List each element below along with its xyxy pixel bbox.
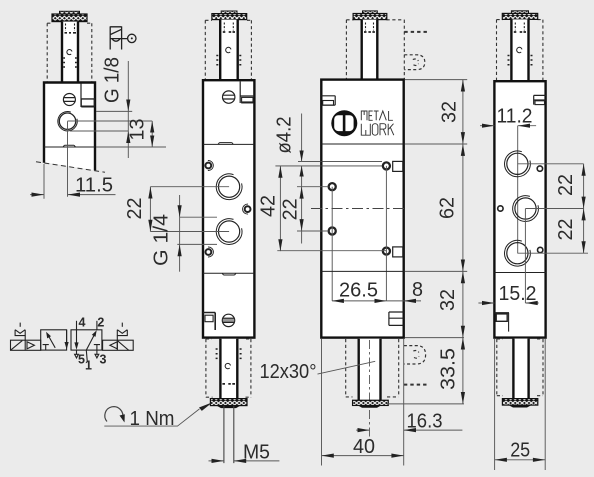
view3 dashed cable stub bottom — [404, 384, 429, 386]
svg-text:11.5: 11.5 — [75, 175, 113, 197]
view1 slanted dashed break line — [36, 162, 105, 173]
dimension 8 — [386, 279, 423, 303]
symbol port 3 exhaust — [95, 350, 99, 358]
view4 stem rotate symbol — [517, 47, 522, 52]
svg-text:32: 32 — [439, 101, 461, 123]
view2 bottom stem side dashes — [216, 349, 242, 358]
view4 small hole right-upper — [537, 166, 542, 171]
symbol right actuator box — [103, 340, 134, 350]
view2 screw head bottom — [222, 314, 234, 326]
view2 mount hole bottom-left — [206, 247, 214, 257]
view2 screw head top — [223, 91, 235, 103]
symbol main box left square — [41, 330, 67, 350]
view2 M5 stud — [224, 406, 234, 463]
view2 bottom dashed outline — [206, 339, 251, 397]
view3 mount hole right-lower — [383, 248, 390, 255]
svg-text:2: 2 — [97, 316, 104, 330]
view1 stem side dashes — [63, 58, 77, 67]
view4 small hole right-lower — [538, 247, 543, 252]
svg-text:25: 25 — [510, 440, 530, 462]
dimension 16.3 — [356, 411, 462, 433]
view2 stem — [220, 20, 238, 80]
view2 section line 2 with notch — [203, 273, 254, 275]
view3 bottom extension lines — [322, 339, 404, 466]
view2 bottom stem — [220, 339, 237, 399]
view4 knurled cap — [502, 11, 537, 20]
svg-text:22: 22 — [124, 198, 146, 220]
symbol right manual override — [117, 323, 127, 341]
view2 section line 1 with notch — [203, 143, 254, 145]
dimension 15.2 — [478, 283, 538, 305]
symbol main box right square — [71, 330, 102, 350]
view2 stem rotate symbol — [226, 47, 231, 52]
metal work logo text METAL — [361, 111, 393, 120]
view4 stem side dashes — [508, 56, 533, 65]
view3 right extension lines — [387, 80, 467, 404]
dimension 11.2 — [480, 106, 536, 128]
view3 hole axis thin lines — [332, 166, 386, 301]
view4 bottom stem — [513, 339, 528, 399]
view3 bottom dashed outline — [346, 339, 399, 397]
view2 port circle 2 (G1/4) — [216, 219, 242, 245]
svg-text:G 1/4: G 1/4 — [151, 214, 173, 266]
dimension 22 view3 — [280, 177, 304, 244]
view4 port1 axis line — [517, 126, 519, 254]
view2 bottom knurled cap — [210, 399, 247, 406]
view2 mount hole top-left — [205, 161, 213, 171]
svg-text:40: 40 — [353, 436, 375, 458]
view4 side notch rectangle bottom-left — [494, 313, 509, 332]
view3 hole extension line lower — [277, 250, 386, 252]
metal work logo text WORK — [361, 124, 394, 136]
view3 stem knurl ticks — [364, 31, 375, 33]
dimension 42 — [258, 166, 283, 251]
view2 port leader lines left — [150, 187, 229, 245]
svg-text:1 Nm: 1 Nm — [130, 408, 175, 430]
view4 side notch rectangle top-right — [534, 95, 546, 104]
dimension 22 right upper — [555, 164, 586, 209]
view2 port circle 1 (G1/4) — [216, 174, 242, 200]
view3 bottom stem — [359, 339, 381, 400]
svg-text:16.3: 16.3 — [407, 411, 443, 433]
view4 port circle 2 — [513, 196, 539, 222]
view3 dashed electrical connector — [404, 55, 425, 70]
view1 dimension 13 — [127, 119, 155, 148]
metal work logo disc — [331, 110, 357, 136]
symbol left square arrow diagonal — [46, 332, 55, 348]
svg-text:62: 62 — [437, 197, 459, 219]
dimension 25 — [495, 440, 546, 462]
view3 bottom knurled cap — [353, 400, 389, 408]
view2 side notch rectangle bottom-left — [203, 313, 215, 331]
svg-text:22: 22 — [280, 198, 302, 220]
symbol left square down flow line — [65, 330, 69, 350]
view4 port2 axis line down — [524, 209, 526, 304]
view4 port leader lines right — [517, 164, 588, 253]
svg-text:26.5: 26.5 — [339, 280, 378, 302]
dimension 62 right — [437, 144, 466, 271]
svg-text:13: 13 — [127, 119, 149, 141]
view2 side notch rectangle top-right — [240, 82, 254, 104]
svg-text:4: 4 — [79, 316, 86, 330]
svg-text:12x30°: 12x30° — [260, 361, 317, 383]
view3 bottom stem centerline — [369, 340, 371, 437]
svg-text:3: 3 — [100, 353, 107, 367]
dimension 26.5 — [332, 280, 386, 304]
view2 torque note 1 Nm with leader — [104, 402, 212, 430]
svg-text:ø4.2: ø4.2 — [274, 117, 296, 154]
note 12x30 deg with leader — [260, 361, 376, 383]
view1 dimension 11.5 extension lines — [44, 121, 68, 199]
view3 mount hole left-lower — [329, 227, 336, 234]
view4 section line — [494, 272, 546, 274]
view3 stem — [362, 20, 378, 80]
view1 body section line with notch — [44, 145, 95, 147]
view3 knurled cap — [353, 11, 387, 20]
svg-text:42: 42 — [258, 195, 280, 217]
symbol port 4 line with down arrow — [74, 321, 78, 350]
view1 dashed solenoid outline — [47, 23, 92, 82]
symbol left manual override — [15, 323, 25, 341]
view4 bottom dashed outline — [497, 339, 543, 396]
view4 dashed solenoid outline top — [497, 20, 543, 81]
view1 dimension 11.5 — [30, 175, 115, 197]
view1 screw head — [63, 94, 75, 106]
view4 small hole left-mid — [498, 206, 503, 211]
dimension 22 right lower — [555, 209, 586, 254]
dimension 33.5 right — [437, 338, 465, 404]
view3 section line 1 — [321, 143, 403, 145]
view1 dimension G 1/8 — [102, 57, 131, 158]
view3 mount hole right-upper — [383, 162, 390, 169]
dimension 22 extension stubs view3 — [297, 187, 328, 231]
symbol right square arrow diagonal to port 2 — [86, 330, 96, 350]
view3 side notch square right-mid — [393, 247, 403, 257]
dimension 40 — [322, 436, 404, 458]
view2 knurled cap — [212, 11, 247, 20]
view3 body — [321, 80, 403, 338]
view4 port circle 3 — [505, 240, 531, 266]
view3 dashed solenoid outline top — [346, 20, 404, 79]
symbol port 5 exhaust — [75, 350, 79, 358]
dimension 32 mid right — [437, 271, 465, 337]
view3 horizontal centerline — [311, 208, 408, 210]
view2 dimension G 1/4 — [151, 195, 182, 272]
view4 port circle 1 — [505, 151, 531, 177]
view1 body — [44, 83, 95, 171]
view3 side notch square right-upper — [393, 161, 403, 171]
svg-text:22: 22 — [555, 174, 577, 196]
symbol port 1 line — [86, 350, 87, 362]
svg-text:22: 22 — [555, 219, 577, 241]
view1 knurled cap — [52, 11, 87, 21]
svg-text:15.2: 15.2 — [499, 283, 537, 305]
view3 mount hole left-upper — [329, 183, 336, 190]
view3 dashed cable stub top — [404, 31, 428, 33]
view3 side notch rectangle bottom-right — [389, 312, 404, 325]
view2 mount hole right — [243, 204, 251, 214]
view2 dimension 22 — [124, 187, 153, 232]
view2 dimension M5 — [209, 442, 280, 464]
view1 stem rotate symbol — [67, 49, 72, 54]
view4 bottom extension lines — [495, 339, 546, 470]
view2 stem side dashes — [216, 56, 241, 65]
svg-text:G 1/8: G 1/8 — [102, 57, 124, 103]
view1 G1/8 port circle — [58, 112, 77, 131]
svg-text:11.2: 11.2 — [497, 106, 533, 128]
symbol port 2 line — [96, 321, 98, 330]
view3 counterbore double lines — [275, 161, 382, 166]
dimension 32 top right — [439, 80, 466, 144]
view1 port leader lines — [68, 111, 167, 147]
view3 dashed electrical connector bottom — [404, 346, 426, 364]
view2 body — [203, 80, 254, 337]
view4 bottom knurled cap — [502, 399, 537, 406]
view2 bottom stem rotate symbol — [225, 363, 230, 368]
svg-text:5: 5 — [78, 353, 85, 367]
view3 section line 2 — [321, 270, 403, 272]
svg-text:1: 1 — [85, 359, 92, 373]
view2 dashed solenoid outline top — [205, 20, 251, 79]
svg-text:M5: M5 — [243, 442, 270, 464]
symbol left actuator box — [11, 340, 41, 350]
svg-text:8: 8 — [412, 279, 423, 301]
dimension leader o4.2 — [274, 114, 304, 178]
view4 stem — [511, 19, 528, 81]
symbol right square blocked port T — [94, 345, 100, 351]
symbol left square blocked port T — [43, 345, 49, 351]
view1 side notch rectangle — [81, 84, 95, 108]
view2 bottom stem knurl ticks — [222, 383, 235, 385]
view4 stem knurl ticks — [514, 31, 526, 33]
view1 stem knurl ticks — [65, 24, 77, 33]
view4 body — [494, 81, 545, 337]
view3 side notch rectangle top-left — [321, 96, 335, 105]
view1 stem — [62, 22, 78, 83]
view1 pilot/override symbol top — [110, 26, 136, 49]
svg-text:33.5: 33.5 — [437, 348, 459, 390]
svg-text:32: 32 — [437, 289, 459, 311]
view2 stem knurl ticks — [223, 31, 235, 33]
